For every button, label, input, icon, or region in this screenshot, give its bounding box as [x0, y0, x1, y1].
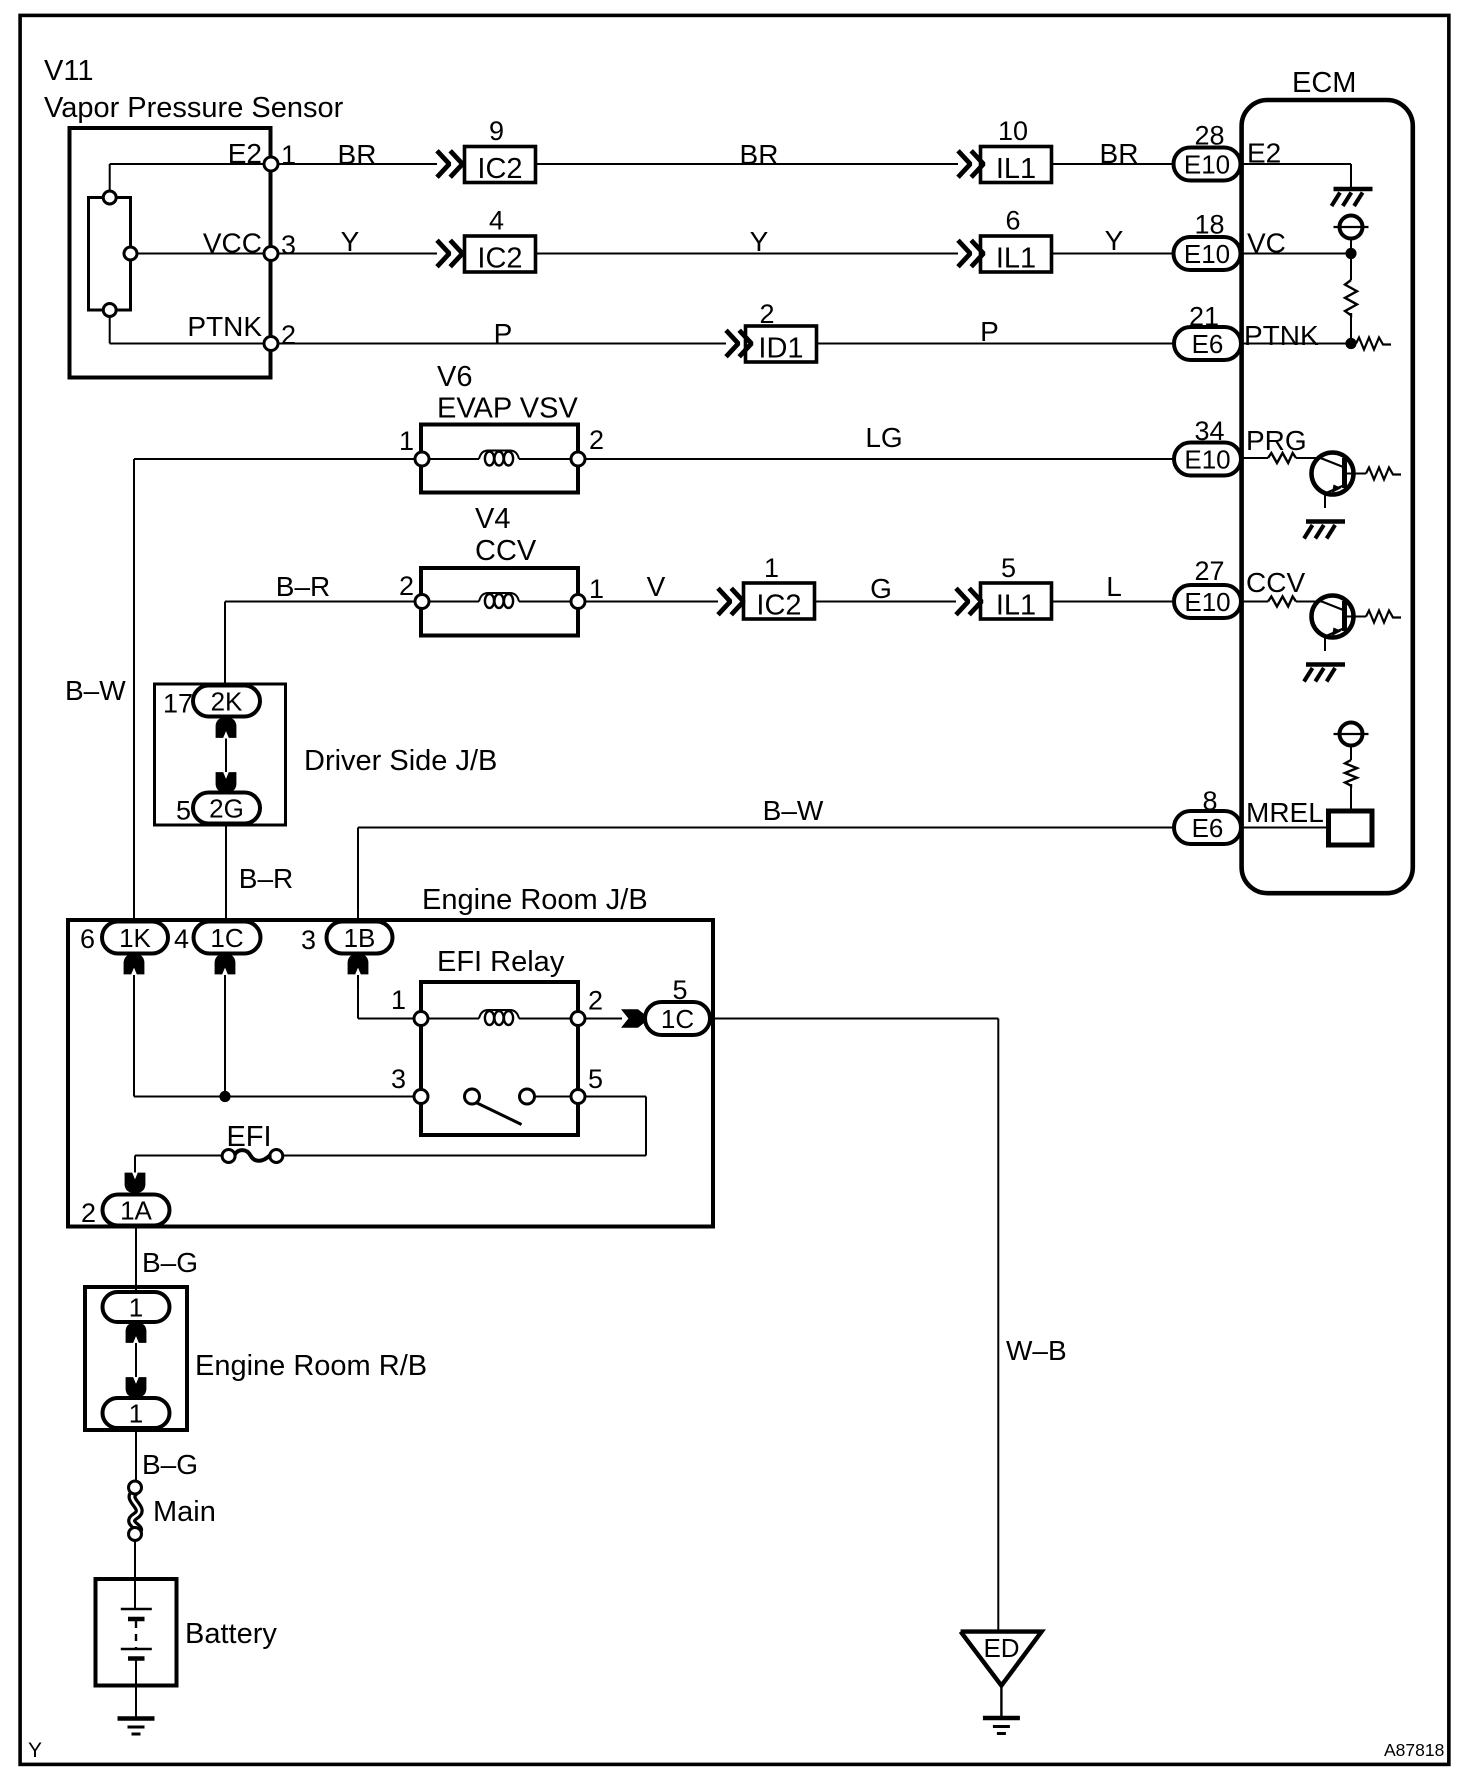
chassis ground CCV: [1306, 662, 1345, 667]
svg-text:1: 1: [281, 140, 296, 170]
svg-text:17: 17: [163, 689, 193, 719]
wire PTNK inside ECM: [1241, 343, 1352, 345]
svg-text:P: P: [494, 318, 513, 349]
wire BR IL1 to E10: [1052, 163, 1174, 165]
svg-text:Y: Y: [750, 226, 769, 257]
MREL internal circuit: [1241, 827, 1327, 829]
wire P ID1 to E6: [817, 343, 1175, 345]
wire B-R CCV to column: [225, 601, 415, 603]
relay switch blade: [476, 1103, 522, 1125]
Engine Room R/B box: [85, 1287, 187, 1430]
ground connector ED: [961, 1632, 1042, 1686]
MREL relay coil box: [1329, 811, 1373, 845]
svg-text:Engine Room R/B: Engine Room R/B: [195, 1350, 427, 1382]
svg-text:2: 2: [81, 1198, 96, 1228]
svg-text:2: 2: [589, 425, 604, 455]
svg-text:3: 3: [301, 925, 316, 955]
svg-text:1B: 1B: [344, 923, 376, 953]
wire E2 inside sensor: [109, 164, 111, 197]
svg-text:IL1: IL1: [996, 590, 1036, 622]
junction arrow into IL1 row2: [958, 240, 970, 266]
svg-text:CCV: CCV: [475, 535, 537, 567]
svg-text:Y: Y: [1105, 225, 1124, 256]
transistor CCV driver: [1312, 596, 1354, 638]
svg-text:B–W: B–W: [65, 675, 126, 706]
svg-text:V4: V4: [475, 503, 510, 535]
svg-text:EVAP VSV: EVAP VSV: [437, 393, 578, 425]
wire BR IC2 to IL1: [536, 163, 959, 165]
wire W-B 1C to ED: [710, 1018, 998, 1020]
svg-text:5: 5: [176, 796, 191, 826]
wire Main to battery: [134, 1540, 136, 1579]
svg-text:Y: Y: [341, 226, 360, 257]
svg-text:IL1: IL1: [996, 153, 1036, 185]
wire 2K to 2G: [225, 739, 227, 773]
wire L IL1 to E10: [1052, 601, 1175, 603]
junction arrow into IC2 ccv: [718, 588, 730, 614]
svg-text:BR: BR: [1100, 138, 1139, 169]
svg-text:ED: ED: [983, 1633, 1019, 1663]
connector IC2 (1) ccv: [744, 583, 815, 619]
svg-text:2: 2: [399, 571, 414, 601]
svg-text:P: P: [980, 316, 999, 347]
junction arrow into IL1 row1: [958, 151, 970, 177]
V6 pin circles: [415, 452, 429, 466]
arrow up into 1C: [215, 954, 236, 974]
node PTNK junction: [1345, 338, 1356, 349]
connector 1A (2): [103, 1195, 170, 1226]
svg-text:1: 1: [129, 1399, 143, 1429]
svg-text:E6: E6: [1192, 813, 1224, 843]
svg-text:6: 6: [80, 924, 95, 954]
sensor V11 box: [70, 128, 271, 378]
wire Y sensor to IC2: [278, 253, 437, 255]
svg-text:2: 2: [281, 320, 296, 350]
EVAP VSV box V6: [421, 425, 578, 493]
wire VCC inside sensor: [131, 253, 272, 255]
connector 1C (4): [194, 922, 261, 954]
wire 1K down to junction row: [133, 975, 135, 1097]
Engine Room J/B box: [68, 920, 713, 1227]
wire VC to node: [1241, 253, 1352, 255]
connector 2G (5): [193, 793, 260, 824]
svg-text:2G: 2G: [209, 794, 244, 824]
svg-text:E10: E10: [1184, 587, 1230, 617]
svg-text:G: G: [870, 573, 892, 604]
wire Y IL1 to E10: [1052, 253, 1174, 255]
svg-text:2: 2: [759, 299, 774, 329]
svg-text:10: 10: [998, 116, 1028, 146]
wire B-G 1A to R/B: [135, 1226, 137, 1293]
svg-text:E10: E10: [1184, 445, 1230, 475]
wire LG VSV to E10: [585, 458, 1174, 460]
svg-text:B–G: B–G: [142, 1449, 198, 1480]
svg-text:1: 1: [399, 426, 414, 456]
wire between R/B connectors: [135, 1343, 137, 1377]
svg-text:VCC: VCC: [203, 228, 262, 259]
svg-text:5: 5: [588, 1064, 603, 1094]
wire 1C down to junction: [224, 975, 226, 1097]
wire V CCV to IC2: [585, 601, 718, 603]
arrow into connector 1C: [621, 1009, 644, 1028]
svg-text:W–B: W–B: [1006, 1335, 1067, 1366]
connector IL1 (6) row2: [981, 236, 1052, 272]
fuse EFI: [222, 1150, 235, 1163]
EFI Relay box: [421, 982, 578, 1135]
arrow down into 2G: [216, 772, 237, 792]
connector IL1 (5) ccv: [981, 583, 1052, 619]
arrow down into 1A: [125, 1173, 146, 1193]
svg-text:E10: E10: [1184, 239, 1230, 269]
connector 1 top R/B: [103, 1292, 170, 1322]
junction arrow into ID1: [726, 330, 738, 356]
svg-text:1A: 1A: [120, 1196, 152, 1226]
squiggle PTNK to other systems: [1356, 338, 1391, 350]
junction arrow into IC2 row2: [437, 240, 449, 266]
ground battery: [118, 1716, 155, 1721]
svg-text:4: 4: [489, 206, 504, 236]
connector ID1 (2): [746, 326, 817, 362]
CCV internal: resistor to transistor: [1241, 601, 1269, 603]
Driver Side J/B box: [155, 684, 286, 825]
svg-text:1C: 1C: [210, 923, 243, 953]
svg-text:Battery: Battery: [185, 1618, 277, 1650]
V4 pin circles: [415, 595, 429, 609]
node junction 1C/relay3: [219, 1091, 230, 1102]
node VC junction: [1345, 248, 1356, 259]
svg-text:EFI: EFI: [226, 1121, 271, 1153]
svg-text:1: 1: [589, 574, 604, 604]
svg-text:E2: E2: [228, 138, 262, 169]
connector 1K (6): [102, 922, 168, 954]
connector 1B (3): [327, 922, 393, 954]
connector IC2 (9) row1: [465, 147, 536, 183]
wire BR sensor to IC2: [278, 163, 437, 165]
relay pin 2: [571, 1012, 585, 1026]
connector 2K (17): [193, 686, 260, 717]
svg-text:1K: 1K: [119, 923, 151, 953]
svg-text:MREL: MREL: [1246, 797, 1324, 828]
junction arrow into IL1 ccv: [956, 588, 968, 614]
PRG internal: resistor to transistor: [1241, 457, 1269, 459]
wire B-W VSV pin1 to left column: [134, 458, 415, 460]
connector IL1 (10) row1: [981, 147, 1052, 183]
arrow up into 2K: [216, 718, 237, 738]
svg-text:1: 1: [129, 1293, 143, 1323]
svg-text:1: 1: [764, 553, 779, 583]
svg-text:27: 27: [1194, 556, 1224, 586]
internal supply symbol MREL: [1340, 723, 1363, 746]
svg-text:B–W: B–W: [763, 795, 824, 826]
relay switch contacts: [465, 1089, 480, 1104]
svg-text:Main: Main: [153, 1496, 216, 1528]
svg-text:Y: Y: [28, 1739, 42, 1762]
svg-text:V6: V6: [437, 361, 472, 393]
wire E2 to ground inside ECM: [1241, 163, 1352, 165]
connector 1 bottom R/B: [103, 1398, 170, 1428]
ground ED: [983, 1716, 1020, 1721]
svg-text:Engine Room J/B: Engine Room J/B: [422, 884, 648, 916]
svg-text:Driver Side J/B: Driver Side J/B: [304, 745, 497, 777]
wire PTNK inside sensor: [109, 310, 111, 344]
wire B-R 2G to 1C: [225, 824, 227, 922]
svg-text:ID1: ID1: [758, 333, 803, 365]
svg-text:PTNK: PTNK: [187, 311, 262, 342]
svg-text:6: 6: [1005, 206, 1020, 236]
coil V4: [429, 601, 479, 603]
connector IC2 (4) row2: [465, 236, 536, 272]
wire B-W 1B to E6 MREL: [357, 828, 359, 922]
wire fuse to 1A: [135, 1155, 222, 1157]
svg-text:E6: E6: [1192, 329, 1224, 359]
svg-text:2K: 2K: [211, 687, 243, 717]
relay coil wire: [428, 1018, 479, 1020]
svg-text:L: L: [1106, 571, 1122, 602]
chassis ground E2: [1334, 187, 1373, 192]
relay coil: [479, 1010, 519, 1019]
svg-text:IC2: IC2: [756, 590, 801, 622]
svg-text:B–G: B–G: [142, 1247, 198, 1278]
svg-text:BR: BR: [740, 139, 779, 170]
svg-text:1: 1: [391, 985, 406, 1015]
battery cells: [134, 1579, 136, 1609]
svg-text:PRG: PRG: [1246, 425, 1307, 456]
svg-text:Vapor Pressure Sensor: Vapor Pressure Sensor: [44, 92, 344, 124]
wire switch to pin5: [535, 1096, 572, 1098]
resistor VC to PTNK: [1350, 254, 1352, 281]
wire pin5 to EFI fuse: [585, 1096, 646, 1098]
sensor element terminals: [103, 191, 116, 204]
svg-text:B–R: B–R: [276, 571, 330, 602]
collector squiggle PRG: [1366, 468, 1401, 480]
svg-text:LG: LG: [865, 422, 902, 453]
wire Y IC2 to IL1: [536, 253, 959, 255]
arrow up into 1B: [348, 954, 369, 974]
relay pin 3: [414, 1090, 428, 1104]
svg-text:IC2: IC2: [477, 153, 522, 185]
svg-text:BR: BR: [338, 139, 377, 170]
CCV box V4: [421, 568, 578, 636]
svg-text:B–R: B–R: [239, 863, 293, 894]
wire P sensor to ID1: [278, 343, 726, 345]
svg-text:4: 4: [174, 924, 189, 954]
svg-text:1C: 1C: [661, 1004, 694, 1034]
svg-text:9: 9: [489, 116, 504, 146]
internal supply symbol above VC: [1340, 216, 1363, 239]
sensor element: [89, 198, 131, 311]
svg-text:A87818: A87818: [1384, 1740, 1444, 1760]
relay pin 5: [571, 1090, 585, 1104]
wire G IC2 to IL1: [815, 601, 957, 603]
svg-text:ECM: ECM: [1292, 67, 1356, 99]
svg-text:5: 5: [1001, 553, 1016, 583]
svg-text:V11: V11: [44, 55, 93, 87]
wire ED to ground: [1000, 1686, 1002, 1716]
arrow down into bottom 1: [126, 1377, 147, 1397]
fusible link Main: [132, 1492, 140, 1532]
wire relay pin2 to 1C: [585, 1018, 622, 1020]
junction arrow into IC2: [437, 151, 449, 177]
wire 1B down to relay pin1: [357, 975, 359, 1019]
collector squiggle CCV: [1366, 611, 1401, 623]
battery box: [96, 1579, 177, 1686]
svg-text:E10: E10: [1184, 150, 1230, 180]
ECM box: [1242, 100, 1413, 893]
arrow up into 1K: [124, 954, 145, 974]
svg-text:PTNK: PTNK: [1244, 320, 1319, 351]
wire B-G R/B to Main link: [135, 1428, 137, 1482]
svg-text:3: 3: [391, 1064, 406, 1094]
svg-text:IL1: IL1: [996, 243, 1036, 275]
resistor MREL coil feed: [1345, 760, 1357, 786]
chassis ground PRG: [1306, 519, 1345, 524]
svg-text:2: 2: [588, 986, 603, 1016]
arrow up into top 1: [126, 1323, 147, 1343]
relay pin 1: [414, 1012, 428, 1026]
coil V6: [429, 458, 479, 460]
sensor pin circles: [264, 157, 278, 171]
svg-text:3: 3: [281, 230, 296, 260]
svg-text:EFI Relay: EFI Relay: [437, 946, 565, 978]
svg-text:IC2: IC2: [477, 243, 522, 275]
svg-text:CCV: CCV: [1246, 567, 1305, 598]
transistor PRG driver: [1312, 453, 1354, 495]
svg-text:V: V: [647, 571, 666, 602]
